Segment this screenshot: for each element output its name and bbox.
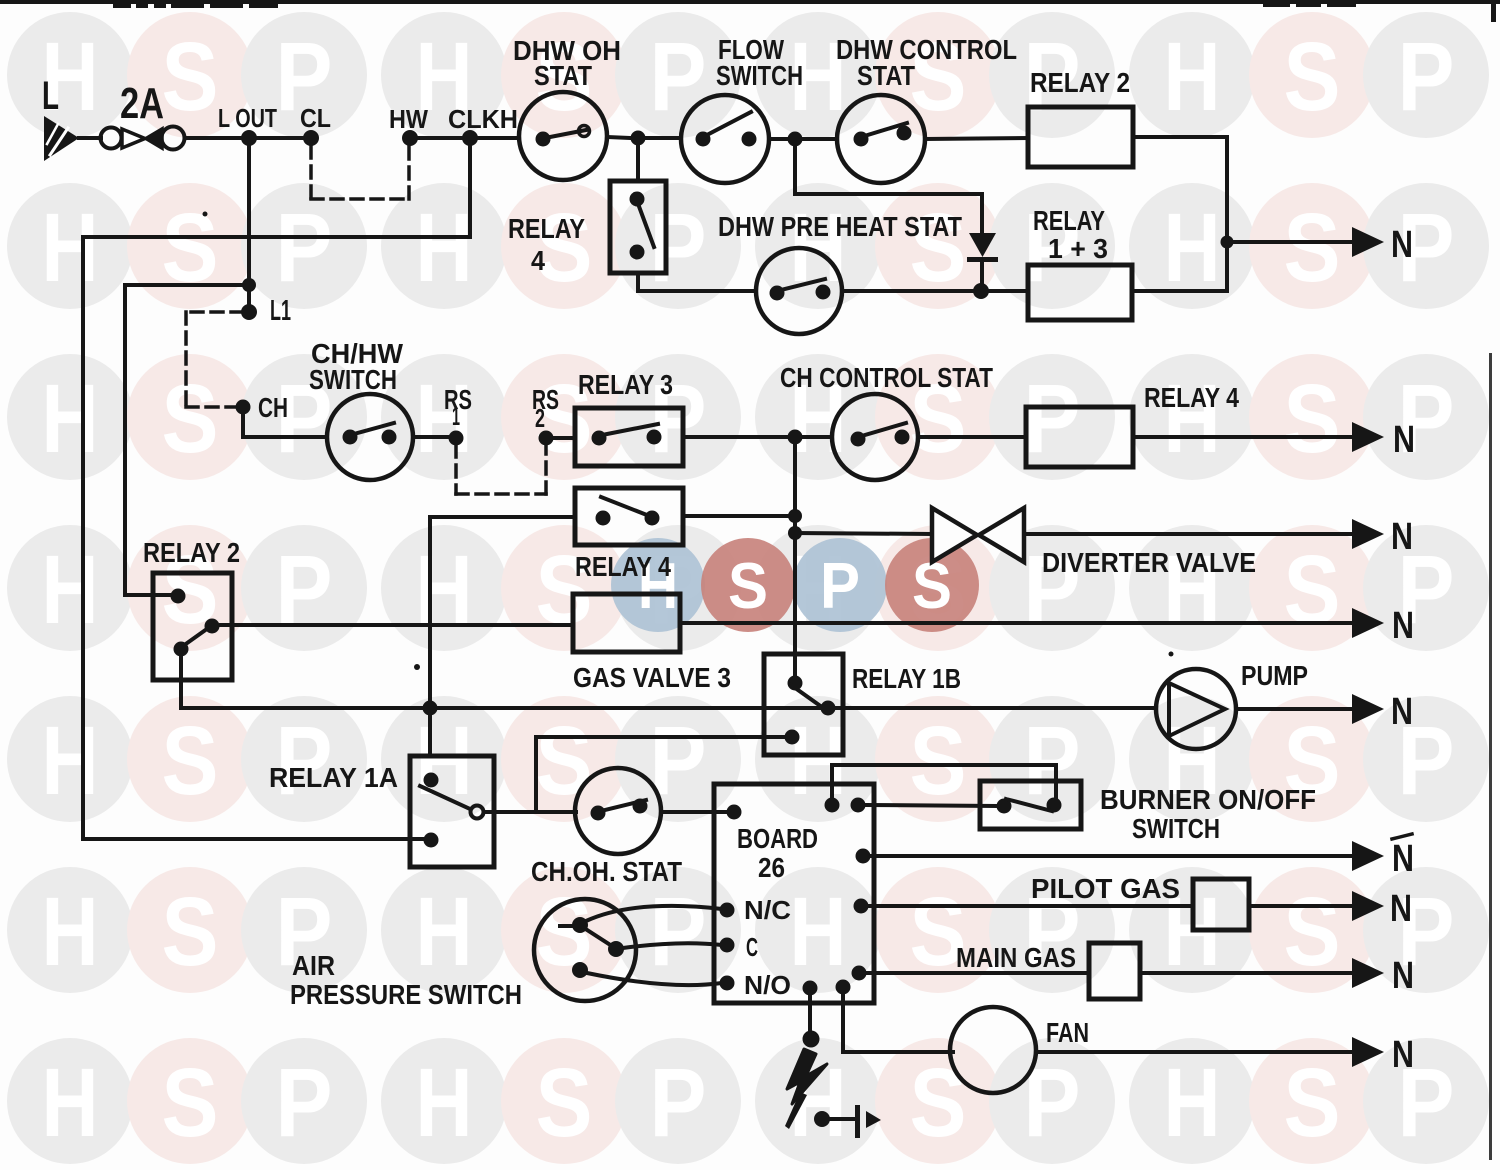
svg-text:H: H xyxy=(416,193,473,302)
lever relay 3 xyxy=(597,424,658,436)
junction relay 1A node xyxy=(423,701,438,716)
wire relay 2 down xyxy=(179,657,183,708)
wire relay 4 to N arrow 2 xyxy=(1133,435,1352,439)
wire board to spark xyxy=(808,996,812,1032)
svg-text:H: H xyxy=(416,1048,473,1157)
svg-text:S: S xyxy=(910,193,967,302)
svg-text:BURNER ON/OFF: BURNER ON/OFF xyxy=(1100,784,1316,815)
svg-text:N: N xyxy=(1391,224,1413,266)
svg-text:C: C xyxy=(746,932,758,962)
svg-text:MAIN GAS: MAIN GAS xyxy=(956,942,1076,973)
dashed wire CL to HW xyxy=(311,197,409,201)
svg-text:RELAY 2: RELAY 2 xyxy=(1030,67,1130,98)
relay coil RELAY 2 xyxy=(1028,107,1133,167)
lever relay 1A xyxy=(420,786,470,809)
svg-text:S: S xyxy=(1284,535,1341,644)
svg-text:S: S xyxy=(162,364,219,473)
relay switch RELAY 1A xyxy=(410,756,494,867)
svg-text:L1: L1 xyxy=(270,295,291,327)
lever relay 4 mid xyxy=(601,497,652,517)
wire relay 2 to N rail xyxy=(1133,135,1227,139)
pin pilot gas xyxy=(854,899,869,914)
wire CH/HW to RS1 xyxy=(413,435,450,439)
wire down to N node xyxy=(1225,137,1229,242)
svg-text:S: S xyxy=(162,877,219,986)
lever CH control stat xyxy=(858,423,906,437)
svg-text:N: N xyxy=(1392,1034,1414,1076)
svg-text:L OUT: L OUT xyxy=(218,103,277,133)
svg-text:H: H xyxy=(1164,193,1221,302)
junction relay4 switch node xyxy=(788,509,802,523)
junction spark node xyxy=(803,1031,820,1048)
wire flow switch to node B xyxy=(769,137,789,141)
fan xyxy=(950,1007,1036,1093)
svg-text:S: S xyxy=(162,22,219,131)
wire board to fan branch xyxy=(841,995,845,1052)
svg-text:AIR: AIR xyxy=(292,950,335,981)
wire pilot gas to N arrow 7 xyxy=(1249,904,1352,908)
neutral arrow N8 xyxy=(1352,958,1384,988)
svg-text:CLKH: CLKH xyxy=(448,104,518,134)
junction diode node xyxy=(973,283,989,299)
valve MAIN GAS xyxy=(1089,943,1140,999)
junction N node xyxy=(1221,236,1234,249)
neutral arrow N9 xyxy=(1352,1037,1384,1067)
wire air pressure to N/C xyxy=(586,906,722,921)
pcb BOARD 26 xyxy=(714,784,874,1003)
wire relay 4 switch down xyxy=(636,273,640,291)
valve PILOT GAS xyxy=(1193,879,1249,930)
svg-text:H: H xyxy=(1164,22,1221,131)
svg-text:STAT: STAT xyxy=(857,60,915,91)
wire board to burner switch xyxy=(866,805,996,806)
wire relay4-mid to relay 1A xyxy=(428,517,432,756)
svg-text:CL: CL xyxy=(300,103,331,133)
wire to diverter valve xyxy=(795,533,932,534)
svg-text:S: S xyxy=(728,549,768,622)
wire CLKH down xyxy=(468,146,472,237)
node RS 1 xyxy=(449,431,464,446)
wire pre heat stat to relay 1+3 xyxy=(842,289,1028,293)
svg-text:L: L xyxy=(42,74,59,118)
node CL xyxy=(303,130,319,146)
lever air pressure switch xyxy=(581,926,615,948)
node L (mains live input) xyxy=(44,116,79,161)
svg-text:N: N xyxy=(1391,516,1413,558)
wire L OUT to CL xyxy=(257,136,311,140)
wire relay 1+3 to N rail xyxy=(1132,289,1227,293)
thermostat CH CONTROL STAT xyxy=(832,394,918,480)
junction node B xyxy=(788,132,803,147)
neutral arrow N7 xyxy=(1352,891,1384,921)
relay switch RELAY 3 xyxy=(575,408,683,466)
svg-text:N/C: N/C xyxy=(744,895,791,925)
pin C xyxy=(720,938,735,953)
dashed wire RS1 down xyxy=(454,445,458,494)
dashed wire RS1 to RS2 xyxy=(456,492,546,496)
node CH xyxy=(236,400,251,415)
wire air pressure to C xyxy=(623,943,722,948)
svg-text:FAN: FAN xyxy=(1046,1017,1089,1048)
svg-text:H: H xyxy=(42,706,99,815)
node RS 2 xyxy=(539,431,554,446)
svg-text:4: 4 xyxy=(531,245,545,276)
lever burner switch xyxy=(1006,799,1052,811)
svg-text:H: H xyxy=(416,364,473,473)
lever relay 2 left xyxy=(183,626,211,646)
svg-text:26: 26 xyxy=(758,852,785,883)
gas valve GAS VALVE 3 xyxy=(573,594,680,652)
wire diode to junction xyxy=(980,262,984,291)
contact relay 1A xyxy=(471,806,484,819)
wire up to N node xyxy=(1225,242,1229,291)
pin spark xyxy=(803,981,818,996)
svg-text:N: N xyxy=(1390,888,1412,930)
dashed wire down to CH xyxy=(184,312,188,407)
svg-text:P: P xyxy=(1024,364,1081,473)
svg-text:H: H xyxy=(416,535,473,644)
pin board live xyxy=(727,805,742,820)
wire stat to relay 4 coil xyxy=(918,435,1026,439)
wire relay 4 mid left xyxy=(430,515,575,519)
node L OUT xyxy=(241,130,257,146)
wire board to pilot gas valve xyxy=(869,904,1193,908)
pin N rail xyxy=(856,849,871,864)
svg-text:P: P xyxy=(1398,22,1455,131)
spark gap electrode xyxy=(814,1111,830,1127)
svg-text:PUMP: PUMP xyxy=(1241,660,1308,691)
lever DHW control stat xyxy=(861,123,907,137)
svg-text:CH: CH xyxy=(258,392,288,423)
svg-text:H: H xyxy=(790,706,847,815)
wire into relay 1B xyxy=(793,659,797,683)
wire to N arrow 1 xyxy=(1227,240,1352,244)
svg-text:DIVERTER VALVE: DIVERTER VALVE xyxy=(1042,547,1256,578)
svg-text:N: N xyxy=(1392,955,1414,997)
pin burner return xyxy=(825,798,840,813)
wire stat to board 26 xyxy=(661,810,727,814)
svg-text:S: S xyxy=(162,1048,219,1157)
wire diode top xyxy=(980,194,984,233)
lever pre heat stat xyxy=(777,279,825,291)
svg-text:S: S xyxy=(910,1048,967,1157)
node L1 xyxy=(241,304,257,320)
svg-text:BOARD: BOARD xyxy=(737,823,818,854)
junction node C xyxy=(788,430,803,445)
arrow mark above N6 xyxy=(1392,834,1412,839)
relay switch RELAY 1B xyxy=(764,654,843,755)
svg-text:H: H xyxy=(1164,364,1221,473)
svg-text:HW: HW xyxy=(389,104,428,134)
svg-text:S: S xyxy=(910,706,967,815)
switch CH/HW xyxy=(327,394,413,480)
relay coil RELAY 4 xyxy=(1026,407,1133,467)
flow switch xyxy=(681,95,769,183)
svg-text:DHW PRE HEAT STAT: DHW PRE HEAT STAT xyxy=(718,211,962,242)
svg-text:SWITCH: SWITCH xyxy=(309,364,397,395)
wire node A to flow switch xyxy=(645,136,681,140)
wire main gas to N arrow 8 xyxy=(1140,971,1352,975)
wire branch to relay 2 rail xyxy=(125,283,249,287)
lever CH/HW switch xyxy=(350,423,394,435)
thermostat DHW OH STAT xyxy=(519,92,607,180)
wire stat to relay 2 coil xyxy=(925,138,1028,139)
dashed wire to CH node xyxy=(186,405,236,409)
relay switch RELAY 2 (left) xyxy=(153,573,232,680)
thermostat CH OH STAT xyxy=(575,768,661,854)
relay coil RELAY 1+3 xyxy=(1028,265,1132,320)
svg-text:H: H xyxy=(42,535,99,644)
svg-text:S: S xyxy=(1284,193,1341,302)
wire fan to N arrow 9 xyxy=(1036,1050,1352,1054)
svg-text:H: H xyxy=(42,1048,99,1157)
dashed wire up to HW xyxy=(407,146,411,199)
svg-text:RELAY 2: RELAY 2 xyxy=(143,537,240,568)
neutral arrow N6 xyxy=(1352,841,1384,871)
wire diverter to N arrow 3 xyxy=(1024,532,1352,536)
svg-text:P: P xyxy=(650,877,707,986)
svg-text:H: H xyxy=(790,877,847,986)
svg-text:H: H xyxy=(42,877,99,986)
svg-text:GAS VALVE 3: GAS VALVE 3 xyxy=(573,662,731,693)
svg-text:CH.OH. STAT: CH.OH. STAT xyxy=(531,856,682,887)
svg-text:RELAY: RELAY xyxy=(508,213,585,244)
svg-text:P: P xyxy=(276,1048,333,1157)
wire rail to relay 2 pin xyxy=(125,593,171,597)
wire relay 3 to node C xyxy=(683,435,789,439)
lever CH OH stat xyxy=(597,800,646,812)
svg-text:RELAY 3: RELAY 3 xyxy=(578,369,673,400)
wire to diode xyxy=(795,192,982,196)
wire CH to CH/HW switch xyxy=(243,435,327,439)
wire burner return down xyxy=(1054,765,1058,797)
pin N/C xyxy=(720,903,735,918)
wire relay 1B bottom left xyxy=(536,735,783,739)
pivot tick xyxy=(560,924,578,928)
svg-text:2A: 2A xyxy=(120,79,164,128)
lever relay 4 switch xyxy=(637,201,654,247)
node CLKH xyxy=(462,130,478,146)
neutral arrow N5 xyxy=(1352,694,1384,724)
svg-text:SWITCH: SWITCH xyxy=(716,60,803,91)
pin main gas xyxy=(852,966,867,981)
dashed wire L1 left xyxy=(187,310,243,314)
svg-text:S: S xyxy=(162,706,219,815)
wire board to N arrow 6 xyxy=(871,854,1352,858)
neutral arrow N1 xyxy=(1352,227,1384,257)
relay switch RELAY 4 (top) xyxy=(610,181,666,273)
wire burner return across xyxy=(832,763,1056,767)
svg-text:PILOT GAS: PILOT GAS xyxy=(1031,873,1180,904)
svg-text:N/O: N/O xyxy=(744,970,791,1000)
svg-text:N: N xyxy=(1391,691,1413,733)
junction diverter node xyxy=(788,526,802,540)
wire stat to node xyxy=(607,137,631,138)
svg-text:1: 1 xyxy=(452,401,460,431)
svg-text:N: N xyxy=(1393,419,1415,461)
svg-text:S: S xyxy=(1284,364,1341,473)
wire node B down xyxy=(793,146,797,194)
wire node A down to relay 4 switch xyxy=(636,145,640,181)
spark igniter xyxy=(787,1049,827,1104)
svg-text:P: P xyxy=(276,535,333,644)
wire relay 4 mid right xyxy=(683,514,795,518)
svg-text:RELAY 4: RELAY 4 xyxy=(1144,382,1239,413)
wire node C down to relay 1B xyxy=(793,444,797,659)
svg-text:P: P xyxy=(650,22,707,131)
dashed wire CL down xyxy=(309,146,313,199)
wire L to fuse xyxy=(79,136,101,140)
lever flow switch xyxy=(703,112,751,137)
neutral arrow N4 xyxy=(1352,608,1384,638)
wire node B to DHW control stat xyxy=(802,137,837,141)
svg-text:RELAY 4: RELAY 4 xyxy=(575,551,671,582)
svg-text:PRESSURE SWITCH: PRESSURE SWITCH xyxy=(290,979,522,1010)
svg-text:2: 2 xyxy=(535,403,545,433)
svg-text:P: P xyxy=(276,706,333,815)
wire CLKH to DHW OH stat xyxy=(477,136,519,140)
diode D1 xyxy=(969,233,996,257)
wire bottom feed to pump xyxy=(181,706,1156,710)
svg-text:RELAY: RELAY xyxy=(1033,205,1105,236)
wire burner return up xyxy=(830,765,834,797)
svg-text:P: P xyxy=(820,549,860,622)
svg-text:P: P xyxy=(276,193,333,302)
svg-text:S: S xyxy=(536,1048,593,1157)
svg-text:1 + 3: 1 + 3 xyxy=(1048,233,1108,264)
svg-text:RELAY 1B: RELAY 1B xyxy=(852,663,961,694)
svg-text:S: S xyxy=(1284,877,1341,986)
wire L OUT down xyxy=(247,146,251,312)
wire rail to relay 1A xyxy=(83,837,423,841)
svg-text:P: P xyxy=(650,193,707,302)
pin burner feed xyxy=(851,798,866,813)
wire board to main gas valve xyxy=(867,971,1089,975)
neutral arrow N3 xyxy=(1352,519,1384,549)
fuse F1 2A xyxy=(101,128,122,149)
node HW xyxy=(402,130,418,146)
junction L OUT branch xyxy=(242,278,256,292)
svg-text:S: S xyxy=(536,706,593,815)
svg-text:S: S xyxy=(1284,22,1341,131)
wire fuse to L OUT xyxy=(185,136,249,140)
wire down xyxy=(534,737,538,812)
lever relay 1B xyxy=(791,685,826,710)
wire to relay 1A contact xyxy=(484,810,536,814)
neutral arrow N2 xyxy=(1352,422,1384,452)
lever DHW OH stat xyxy=(545,130,586,138)
svg-text:STAT: STAT xyxy=(534,60,592,91)
pump xyxy=(1156,669,1236,749)
pin N/O xyxy=(720,976,735,991)
svg-text:N: N xyxy=(1392,838,1414,880)
wire relay4 to pre heat stat xyxy=(638,289,756,293)
relay 2 rail down xyxy=(123,285,127,595)
wire pump to N arrow 5 xyxy=(1236,707,1352,711)
svg-text:H: H xyxy=(42,193,99,302)
wire air pressure to N/O xyxy=(587,973,722,985)
wire RS2 to relay 3 xyxy=(553,436,575,440)
wire across to left rail xyxy=(83,235,470,239)
svg-text:H: H xyxy=(1164,1048,1221,1157)
switch BURNER ON/OFF xyxy=(980,781,1081,829)
svg-text:RELAY 1A: RELAY 1A xyxy=(269,762,398,793)
wire node C to CH control stat xyxy=(802,435,832,439)
svg-text:S: S xyxy=(1284,1048,1341,1157)
svg-text:H: H xyxy=(42,364,99,473)
air pressure switch xyxy=(534,899,636,1001)
svg-text:N: N xyxy=(1392,605,1414,647)
svg-text:P: P xyxy=(650,1048,707,1157)
thermostat DHW PRE HEAT STAT xyxy=(756,248,842,334)
wire to CH OH stat xyxy=(536,810,576,814)
svg-text:SWITCH: SWITCH xyxy=(1132,813,1220,844)
svg-text:CH CONTROL STAT: CH CONTROL STAT xyxy=(780,362,993,393)
dashed wire up to RS2 xyxy=(544,445,548,494)
svg-text:H: H xyxy=(416,877,473,986)
left rail down xyxy=(81,237,85,839)
wire CH down xyxy=(241,413,245,437)
wire HW to CLKH xyxy=(418,136,470,140)
junction node A xyxy=(631,131,646,146)
wire relay 2 to gas valve 3 xyxy=(221,623,573,627)
wire to fan xyxy=(843,1050,953,1054)
wire gas valve to N arrow 4 xyxy=(680,621,1352,625)
pin fan xyxy=(836,980,851,995)
relay switch RELAY 4 (mid) xyxy=(575,488,683,545)
thermostat DHW CONTROL STAT xyxy=(837,95,925,183)
